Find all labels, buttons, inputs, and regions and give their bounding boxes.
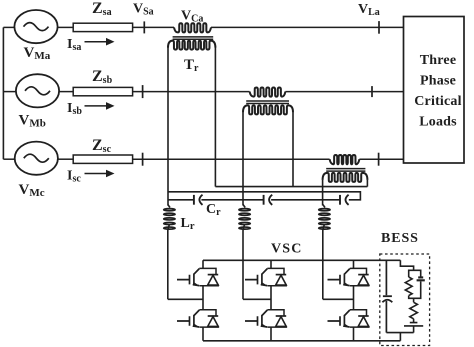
node V_Sb tick (142, 85, 144, 98)
current arrow I_sc (85, 173, 108, 175)
wire L_r phase B to VSC leg 2 midpoint (243, 298, 271, 300)
wire VSC DC+ top bus (203, 259, 400, 261)
wire battery parallel block frame (409, 270, 421, 302)
node V_Sc tick (142, 153, 144, 166)
diode antiparallel at x203 y268 (208, 274, 219, 276)
wire T1 secondary left terminal down to L_r phase A (167, 47, 169, 205)
IGBT transistor at x354 y268 (328, 269, 350, 286)
AC source V_Ma (14, 10, 57, 43)
capacitor C_r phase B (263, 195, 265, 205)
AC source V_Mc (15, 142, 58, 175)
transformer T_r phase C primary winding (330, 155, 360, 164)
BESS dashed enclosure (380, 254, 430, 346)
resistor impedance Z_sa (73, 23, 132, 31)
wire Z_sb to transformer primary, node V_Sb (133, 91, 250, 93)
wire phase B to loads (285, 91, 403, 93)
svg-text:VSC: VSC (271, 242, 303, 257)
diode antiparallel at x271 y268 (276, 274, 287, 276)
wire source V_Mb to impedance Z_sb (59, 91, 73, 93)
inductor L_r phase B (243, 205, 245, 208)
svg-text:Critical: Critical (414, 94, 461, 109)
wire phase C to loads (359, 158, 403, 160)
wire source V_Mb to left bus (3, 91, 16, 93)
wire T1 secondary right terminal down to bus H1 (214, 47, 216, 186)
diode antiparallel at x354 y310 (358, 315, 369, 317)
label Three Phase Critical Loads (414, 53, 461, 130)
wire DC link capacitor branch (385, 260, 387, 332)
wire phase A to loads, node V_La (211, 26, 404, 28)
wire IGBT cell frame at x354 y268 (350, 268, 369, 285)
AC source V_Mb (16, 74, 59, 107)
wire bus H1 secondary star point (215, 186, 367, 188)
node V_La tick (378, 21, 380, 34)
transformer T_r phase B secondary winding (243, 105, 293, 114)
resistor impedance Z_sb (73, 87, 132, 95)
capacitor C_r phase A (193, 195, 195, 205)
wire T3 secondary right terminal down to bus H1 (366, 180, 368, 187)
wire T3 secondary left terminal down to L_r phase C (322, 180, 324, 206)
wire T2 secondary left terminal down to L_r phase B (242, 112, 244, 205)
node V_Lb tick (371, 86, 373, 97)
wire Z_sc to transformer primary, node V_Sc (133, 158, 330, 160)
resistor battery series R (410, 302, 418, 319)
node V_Sa tick (143, 21, 145, 33)
diode antiparallel at x203 y310 (208, 315, 219, 317)
capacitor DC link curved plate (382, 300, 392, 303)
wire battery branch top entry (400, 260, 413, 270)
wire source V_Ma to impedance Z_sa (58, 26, 74, 28)
wire VSC leg 2 rail (270, 260, 272, 341)
transformer T_r phase B primary winding (250, 88, 286, 97)
wire BESS bottom internal (386, 333, 413, 341)
IGBT transistor at x271 y268 (245, 269, 267, 286)
capacitor C_r phase C (339, 195, 341, 205)
wire source V_Mc to impedance Z_sc (58, 158, 73, 160)
transformer T_r phase C secondary winding (323, 173, 368, 182)
Three Phase Critical Loads box (404, 17, 465, 164)
IGBT transistor at x203 y310 (177, 310, 199, 327)
IGBT transistor at x271 y310 (245, 310, 267, 327)
transformer T_r phase B core (246, 101, 289, 104)
transformer T_r phase A core (173, 37, 214, 39)
wire L_r phase C to VSC leg 3 midpoint (323, 298, 354, 300)
wire T2 secondary right terminal down to bus H1 (292, 112, 294, 186)
transformer T_r phase C core (326, 169, 365, 172)
wire source V_Mc to left bus (3, 158, 14, 160)
inductor L_r phase A (168, 205, 170, 208)
transformer T_r phase A secondary winding (168, 41, 215, 50)
resistor impedance Z_sc (73, 155, 132, 163)
transformer T_r phase A primary winding (174, 23, 211, 32)
wire IGBT cell frame at x271 y268 (267, 268, 286, 285)
wire source V_Ma to left bus (3, 26, 14, 28)
wire VSC leg 1 rail (202, 260, 204, 341)
diode antiparallel at x354 y268 (358, 274, 369, 276)
inductor L_r phase C (323, 205, 325, 208)
wire left neutral bus (2, 27, 4, 159)
current arrow I_sa (85, 41, 108, 43)
current arrow I_sb (85, 105, 108, 107)
IGBT transistor at x354 y310 (328, 310, 350, 327)
resistor battery transient R (405, 277, 412, 296)
IGBT transistor at x203 y268 (177, 269, 199, 286)
capacitor battery transient C plates (417, 277, 425, 280)
node V_Lc tick (378, 153, 380, 166)
wire Z_sa to transformer primary, node V_Sa (133, 26, 174, 28)
wire IGBT cell frame at x203 y268 (199, 268, 218, 285)
wire IGBT cell frame at x203 y310 (199, 310, 218, 327)
wire IGBT cell frame at x271 y310 (267, 310, 286, 327)
svg-text:Loads: Loads (419, 115, 457, 130)
diode antiparallel at x271 y310 (276, 315, 287, 317)
wire bus H3 with filter capacitors (168, 199, 340, 201)
svg-text:BESS: BESS (381, 231, 419, 246)
wire VSC leg 3 rail (353, 260, 355, 341)
wire VSC DC- bottom bus (203, 340, 400, 342)
capacitor DC link plate (383, 295, 392, 297)
battery cell symbol (404, 319, 423, 333)
svg-text:Three: Three (420, 53, 457, 68)
svg-text:Phase: Phase (420, 74, 456, 89)
wire bus H2 (168, 192, 360, 200)
wire IGBT cell frame at x354 y310 (350, 310, 369, 327)
wire L_r phase A to VSC leg 1 midpoint (168, 298, 203, 300)
